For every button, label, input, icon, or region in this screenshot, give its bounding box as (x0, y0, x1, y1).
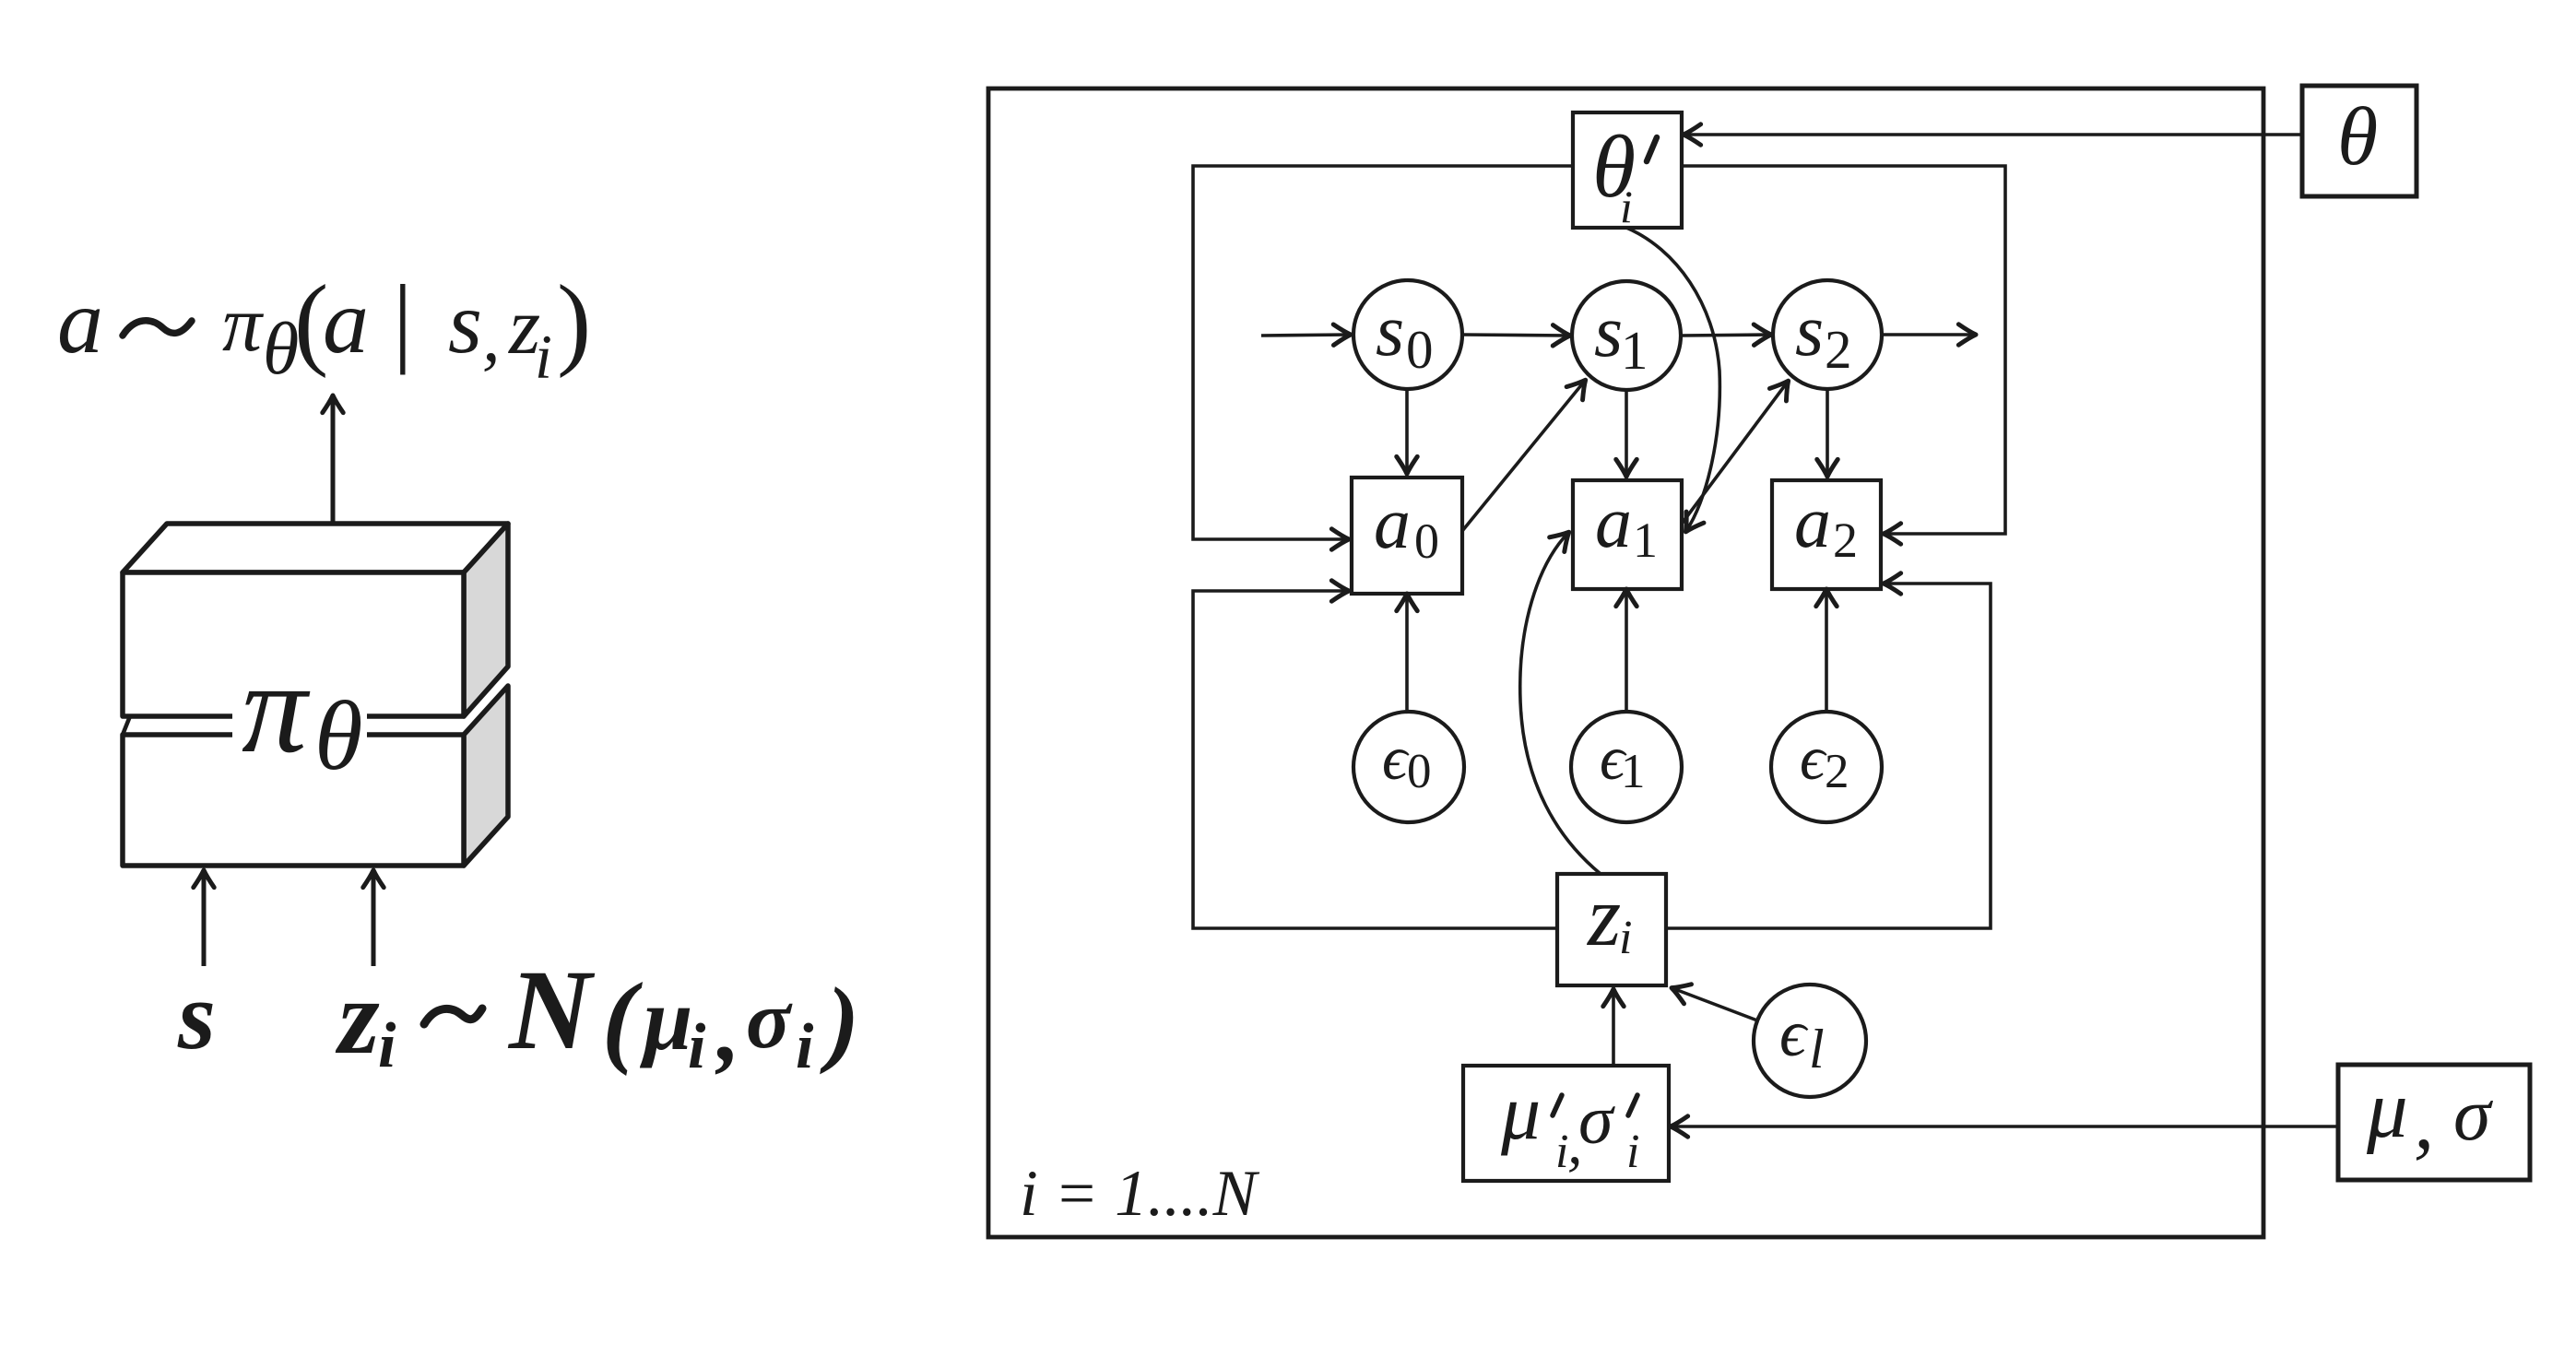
wire epsilon_l to z_i (1672, 988, 1757, 1020)
svg-text:μ: μ (1500, 1067, 1541, 1156)
svg-text:0: 0 (1414, 513, 1439, 569)
node theta box (2302, 86, 2416, 196)
wire theta-prime to a_2 loop (1682, 166, 2005, 534)
wire s_0 to s_1 (1462, 335, 1569, 336)
svg-text:a: a (1794, 482, 1831, 563)
wire epsilon_1 to a_1 (1625, 590, 1628, 710)
node s_0 (1353, 280, 1462, 389)
node epsilon_2 (1771, 712, 1882, 822)
wire s_2 out (1882, 333, 1975, 336)
svg-text:s: s (177, 961, 216, 1069)
svg-text:0: 0 (1407, 745, 1432, 798)
svg-text:a: a (1595, 482, 1632, 563)
node s_2 (1773, 280, 1882, 389)
svg-text:i = 1....N: i = 1....N (1020, 1158, 1260, 1230)
wire mu,sigma to mu-prime,sigma-prime (1672, 1125, 2338, 1128)
wire theta to theta-prime (1684, 133, 2302, 136)
svg-text:,: , (482, 296, 501, 376)
svg-text:s: s (1594, 291, 1623, 372)
wire epsilon_0 to a_0 (1405, 595, 1409, 710)
svg-text:z: z (335, 959, 380, 1076)
wire a_1 to s_2 diagonal (1682, 382, 1788, 524)
svg-text:μ: μ (639, 970, 692, 1068)
wire s_0 to a_0 (1405, 389, 1409, 473)
svg-text:i: i (378, 1010, 396, 1081)
svg-text:0: 0 (1406, 319, 1434, 380)
svg-text:s: s (448, 274, 482, 371)
svg-text:a: a (57, 270, 103, 372)
node a_1 (1573, 480, 1682, 589)
wire theta-prime to a_1 curve (1626, 228, 1719, 531)
node label s (177, 961, 216, 1069)
svg-text:s: s (1376, 290, 1404, 371)
pi_theta network box bottom slab (123, 686, 508, 866)
svg-text:i: i (535, 322, 552, 392)
svg-text:σ: σ (1578, 1081, 1615, 1159)
svg-text:σ: σ (746, 974, 793, 1066)
svg-text:a: a (323, 270, 369, 372)
svg-text:π: π (242, 634, 311, 780)
svg-text:i: i (1619, 912, 1632, 964)
wire mu-prime to z_i (1612, 990, 1615, 1066)
wire z_i to a_1 curve (1520, 533, 1601, 874)
svg-text:i: i (1626, 1126, 1639, 1178)
svg-text:i: i (688, 1011, 706, 1082)
wire s_2 to a_2 (1826, 389, 1829, 476)
wire a_0 to s_1 diagonal (1462, 381, 1585, 531)
node epsilon_1 (1571, 712, 1682, 822)
svg-text:1: 1 (1621, 745, 1646, 798)
wire z_i to a_0 loop (1193, 591, 1557, 928)
svg-text:ϵ: ϵ (1382, 723, 1410, 793)
svg-text:θ: θ (314, 682, 363, 791)
wire s_1 to a_1 (1625, 390, 1628, 476)
plate index label i = 1....N (1020, 1158, 1260, 1230)
pi_theta network box top slab (123, 524, 508, 716)
wire theta-prime to a_0 loop (1193, 166, 1573, 539)
wire z_i to a_2 loop (1666, 584, 1991, 928)
wire z_i input arrow (372, 871, 376, 966)
node a_0 (1352, 478, 1462, 594)
node epsilon_0 (1353, 712, 1464, 822)
node a_2 (1772, 480, 1881, 589)
node mu-prime_i,sigma-prime_i box (1463, 1066, 1669, 1181)
svg-text:N: N (507, 947, 596, 1073)
wire epsilon_2 to a_2 (1825, 590, 1828, 710)
svg-text:2: 2 (1825, 319, 1852, 380)
svg-text:,: , (715, 978, 740, 1080)
formula a ~ pi_theta(a|s,z_i) (57, 265, 591, 392)
wire into s_0 (1261, 335, 1350, 336)
node epsilon_l (1754, 985, 1866, 1097)
node z_i box (1557, 869, 1666, 985)
svg-text:ϵ: ϵ (1800, 723, 1827, 793)
svg-text:2: 2 (1833, 513, 1858, 568)
svg-text:i: i (796, 1011, 814, 1082)
node s_1 (1572, 281, 1681, 390)
svg-text:μ: μ (2366, 1065, 2408, 1155)
svg-text:1: 1 (1633, 513, 1658, 568)
formula z_i ~ N(mu_i, sigma_i) (335, 947, 859, 1082)
svg-text:2: 2 (1825, 745, 1849, 798)
wire s_1 to s_2 (1681, 335, 1770, 336)
svg-text:z: z (1586, 869, 1621, 964)
svg-text:|: | (393, 265, 413, 375)
svg-text:): ) (557, 265, 591, 379)
wire s input arrow (202, 871, 207, 966)
svg-text:σ: σ (2453, 1072, 2494, 1156)
svg-text:ϵ: ϵ (1779, 997, 1809, 1070)
svg-text:a: a (1374, 483, 1411, 564)
svg-text:l: l (1809, 1019, 1825, 1079)
svg-text:i: i (1620, 181, 1633, 232)
svg-text:,: , (2414, 1076, 2434, 1166)
wire a output arrow (331, 396, 336, 525)
svg-text:s: s (1795, 290, 1824, 371)
svg-text:π: π (222, 279, 265, 368)
node theta-prime_i box (1573, 112, 1682, 232)
plate boundary (988, 88, 2263, 1237)
node mu,sigma box (2338, 1065, 2530, 1180)
svg-text:θ: θ (2337, 91, 2378, 183)
svg-text:1: 1 (1621, 320, 1648, 381)
pi_theta label (232, 634, 367, 791)
